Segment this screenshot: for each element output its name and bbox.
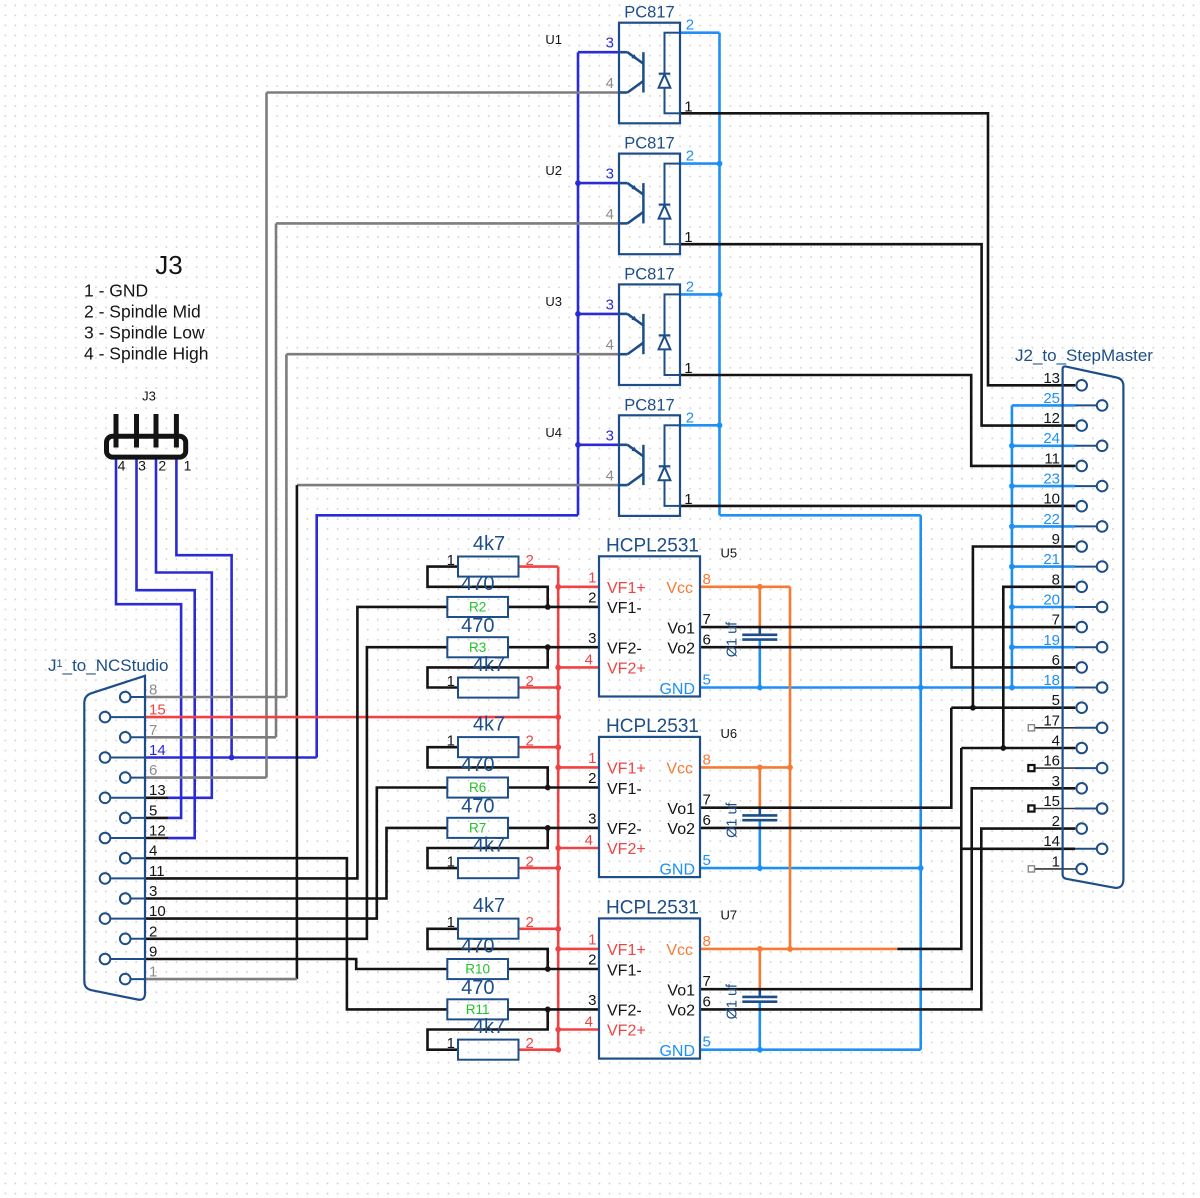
svg-text:J3: J3 bbox=[142, 389, 156, 404]
svg-text:U1: U1 bbox=[545, 32, 562, 47]
svg-text:13: 13 bbox=[1043, 370, 1060, 387]
svg-text:VF1+: VF1+ bbox=[607, 580, 646, 597]
svg-text:3: 3 bbox=[606, 427, 614, 444]
svg-text:2: 2 bbox=[686, 17, 694, 34]
svg-text:2: 2 bbox=[1052, 813, 1060, 830]
svg-text:R11: R11 bbox=[466, 1002, 490, 1017]
svg-text:4k7: 4k7 bbox=[473, 834, 505, 856]
svg-text:14: 14 bbox=[1043, 833, 1060, 850]
svg-text:7: 7 bbox=[149, 722, 157, 739]
svg-text:2: 2 bbox=[588, 952, 596, 969]
svg-text:9: 9 bbox=[149, 944, 157, 961]
svg-text:2: 2 bbox=[526, 733, 534, 750]
svg-text:19: 19 bbox=[1043, 632, 1060, 649]
svg-text:1: 1 bbox=[588, 931, 596, 948]
svg-text:R7: R7 bbox=[469, 820, 486, 835]
svg-text:1: 1 bbox=[684, 360, 692, 377]
svg-text:J3: J3 bbox=[155, 250, 182, 280]
svg-text:4: 4 bbox=[149, 843, 157, 860]
svg-text:4k7: 4k7 bbox=[473, 1016, 505, 1038]
svg-text:Vo2: Vo2 bbox=[667, 821, 695, 838]
svg-text:470: 470 bbox=[461, 754, 494, 776]
svg-text:J2_to_StepMaster: J2_to_StepMaster bbox=[1015, 346, 1153, 365]
svg-text:Vcc: Vcc bbox=[666, 761, 693, 778]
svg-text:470: 470 bbox=[461, 573, 494, 595]
svg-text:4: 4 bbox=[585, 832, 593, 849]
svg-text:1: 1 bbox=[447, 733, 455, 750]
svg-text:4k7: 4k7 bbox=[473, 533, 505, 555]
svg-text:1: 1 bbox=[447, 854, 455, 871]
svg-text:6: 6 bbox=[703, 631, 711, 648]
svg-text:4: 4 bbox=[585, 651, 593, 668]
svg-text:1: 1 bbox=[184, 458, 192, 474]
svg-text:R2: R2 bbox=[469, 600, 486, 615]
svg-text:4: 4 bbox=[606, 206, 614, 223]
svg-text:1: 1 bbox=[684, 491, 692, 508]
svg-text:17: 17 bbox=[1043, 712, 1060, 729]
svg-text:Vcc: Vcc bbox=[666, 580, 693, 597]
svg-text:15: 15 bbox=[149, 702, 166, 719]
svg-text:1: 1 bbox=[1052, 853, 1060, 870]
svg-text:8: 8 bbox=[703, 571, 711, 588]
svg-text:1: 1 bbox=[447, 552, 455, 569]
svg-text:8: 8 bbox=[149, 682, 157, 699]
svg-text:PC817: PC817 bbox=[624, 265, 674, 283]
svg-text:21: 21 bbox=[1043, 551, 1060, 568]
svg-text:3: 3 bbox=[606, 35, 614, 52]
svg-text:5: 5 bbox=[1052, 692, 1060, 709]
svg-text:2 - Spindle Mid: 2 - Spindle Mid bbox=[84, 302, 201, 322]
svg-text:7: 7 bbox=[703, 611, 711, 628]
svg-text:2: 2 bbox=[588, 770, 596, 787]
svg-text:13: 13 bbox=[149, 782, 166, 799]
svg-text:1: 1 bbox=[588, 569, 596, 586]
svg-text:3: 3 bbox=[149, 883, 157, 900]
svg-text:1: 1 bbox=[447, 673, 455, 690]
svg-text:20: 20 bbox=[1043, 592, 1060, 609]
svg-text:VF2+: VF2+ bbox=[607, 661, 646, 678]
svg-text:J1_to_NCStudio: J1_to_NCStudio bbox=[48, 656, 168, 675]
svg-text:Vcc: Vcc bbox=[666, 942, 693, 959]
svg-text:VF2-: VF2- bbox=[607, 1003, 642, 1020]
svg-text:2: 2 bbox=[526, 1035, 534, 1052]
svg-text:7: 7 bbox=[703, 973, 711, 990]
svg-text:11: 11 bbox=[149, 863, 165, 880]
svg-text:VF1-: VF1- bbox=[607, 600, 642, 617]
svg-text:5: 5 bbox=[703, 852, 711, 869]
svg-text:470: 470 bbox=[461, 795, 494, 817]
svg-text:6: 6 bbox=[703, 812, 711, 829]
svg-text:R6: R6 bbox=[469, 780, 486, 795]
svg-text:10: 10 bbox=[1043, 491, 1060, 508]
svg-text:VF1-: VF1- bbox=[607, 781, 642, 798]
svg-text:5: 5 bbox=[703, 1034, 711, 1051]
svg-text:15: 15 bbox=[1043, 793, 1060, 810]
svg-text:PC817: PC817 bbox=[624, 135, 674, 153]
svg-text:Ø1 uf: Ø1 uf bbox=[725, 983, 741, 1019]
svg-text:HCPL2531: HCPL2531 bbox=[606, 898, 699, 919]
svg-text:PC817: PC817 bbox=[624, 396, 674, 414]
svg-text:12: 12 bbox=[149, 823, 166, 840]
svg-text:Vo1: Vo1 bbox=[667, 801, 695, 818]
svg-text:VF2+: VF2+ bbox=[607, 1023, 646, 1040]
svg-text:3: 3 bbox=[588, 810, 596, 827]
svg-text:2: 2 bbox=[686, 148, 694, 165]
svg-text:14: 14 bbox=[149, 742, 166, 759]
svg-text:4 - Spindle High: 4 - Spindle High bbox=[84, 344, 209, 364]
svg-text:4: 4 bbox=[606, 337, 614, 354]
svg-text:Ø1 uf: Ø1 uf bbox=[725, 621, 741, 657]
svg-text:2: 2 bbox=[149, 923, 157, 940]
svg-text:3 - Spindle Low: 3 - Spindle Low bbox=[84, 323, 205, 343]
svg-text:3: 3 bbox=[588, 630, 596, 647]
svg-text:U5: U5 bbox=[721, 545, 738, 560]
svg-text:8: 8 bbox=[703, 933, 711, 950]
svg-text:3: 3 bbox=[588, 992, 596, 1009]
svg-text:4: 4 bbox=[1052, 733, 1060, 750]
svg-text:PC817: PC817 bbox=[624, 4, 674, 22]
svg-text:VF2+: VF2+ bbox=[607, 841, 646, 858]
svg-text:2: 2 bbox=[526, 552, 534, 569]
svg-text:11: 11 bbox=[1044, 450, 1060, 467]
svg-text:2: 2 bbox=[686, 278, 694, 295]
svg-text:Ø1 uf: Ø1 uf bbox=[725, 801, 741, 837]
svg-text:3: 3 bbox=[1052, 773, 1060, 790]
svg-text:GND: GND bbox=[659, 681, 695, 698]
svg-text:GND: GND bbox=[659, 1043, 695, 1060]
svg-text:4: 4 bbox=[585, 1014, 593, 1031]
svg-text:VF1+: VF1+ bbox=[607, 761, 646, 778]
svg-text:22: 22 bbox=[1043, 511, 1060, 528]
svg-text:7: 7 bbox=[1052, 612, 1060, 629]
svg-text:U3: U3 bbox=[545, 294, 562, 309]
svg-text:1: 1 bbox=[149, 964, 157, 981]
svg-text:24: 24 bbox=[1043, 430, 1060, 447]
svg-text:4k7: 4k7 bbox=[473, 895, 505, 917]
svg-text:R10: R10 bbox=[465, 962, 490, 977]
svg-text:VF2-: VF2- bbox=[607, 821, 642, 838]
svg-text:8: 8 bbox=[703, 751, 711, 768]
svg-text:4k7: 4k7 bbox=[473, 654, 505, 676]
svg-text:4k7: 4k7 bbox=[473, 713, 505, 735]
svg-text:VF2-: VF2- bbox=[607, 641, 642, 658]
svg-text:2: 2 bbox=[686, 409, 694, 426]
svg-text:7: 7 bbox=[703, 792, 711, 809]
svg-text:2: 2 bbox=[526, 673, 534, 690]
svg-text:4: 4 bbox=[606, 75, 614, 92]
svg-text:GND: GND bbox=[659, 861, 695, 878]
svg-text:25: 25 bbox=[1043, 390, 1060, 407]
svg-text:Vo1: Vo1 bbox=[667, 620, 695, 637]
svg-text:Vo1: Vo1 bbox=[667, 982, 695, 999]
svg-text:4: 4 bbox=[606, 468, 614, 485]
svg-text:9: 9 bbox=[1052, 531, 1060, 548]
svg-text:1: 1 bbox=[684, 229, 692, 246]
svg-text:3: 3 bbox=[606, 296, 614, 313]
svg-text:5: 5 bbox=[149, 802, 157, 819]
svg-text:HCPL2531: HCPL2531 bbox=[606, 716, 699, 737]
svg-text:12: 12 bbox=[1043, 410, 1060, 427]
svg-text:2: 2 bbox=[158, 458, 166, 474]
svg-text:6: 6 bbox=[1052, 652, 1060, 669]
svg-text:8: 8 bbox=[1052, 571, 1060, 588]
svg-text:1 - GND: 1 - GND bbox=[84, 281, 148, 301]
svg-text:6: 6 bbox=[149, 762, 157, 779]
svg-text:2: 2 bbox=[526, 854, 534, 871]
svg-text:23: 23 bbox=[1043, 471, 1060, 488]
svg-text:470: 470 bbox=[461, 977, 494, 999]
svg-text:HCPL2531: HCPL2531 bbox=[606, 536, 699, 557]
svg-text:3: 3 bbox=[606, 166, 614, 183]
svg-text:4: 4 bbox=[118, 458, 126, 474]
svg-text:1: 1 bbox=[447, 1035, 455, 1052]
svg-text:1: 1 bbox=[447, 914, 455, 931]
svg-text:3: 3 bbox=[138, 458, 146, 474]
svg-text:5: 5 bbox=[703, 672, 711, 689]
svg-text:Vo2: Vo2 bbox=[667, 1003, 695, 1020]
svg-text:10: 10 bbox=[149, 903, 166, 920]
svg-text:18: 18 bbox=[1043, 672, 1060, 689]
svg-text:2: 2 bbox=[588, 590, 596, 607]
svg-text:2: 2 bbox=[526, 914, 534, 931]
svg-text:U7: U7 bbox=[721, 907, 738, 922]
svg-text:Vo2: Vo2 bbox=[667, 641, 695, 658]
svg-text:1: 1 bbox=[684, 98, 692, 115]
svg-text:1: 1 bbox=[588, 750, 596, 767]
svg-text:VF1-: VF1- bbox=[607, 962, 642, 979]
svg-text:R3: R3 bbox=[469, 640, 486, 655]
svg-text:6: 6 bbox=[703, 993, 711, 1010]
svg-text:U6: U6 bbox=[721, 726, 738, 741]
svg-text:U2: U2 bbox=[545, 163, 562, 178]
svg-text:VF1+: VF1+ bbox=[607, 942, 646, 959]
svg-text:470: 470 bbox=[461, 615, 494, 637]
svg-text:470: 470 bbox=[461, 935, 494, 957]
svg-text:16: 16 bbox=[1043, 753, 1060, 770]
svg-text:U4: U4 bbox=[545, 425, 562, 440]
